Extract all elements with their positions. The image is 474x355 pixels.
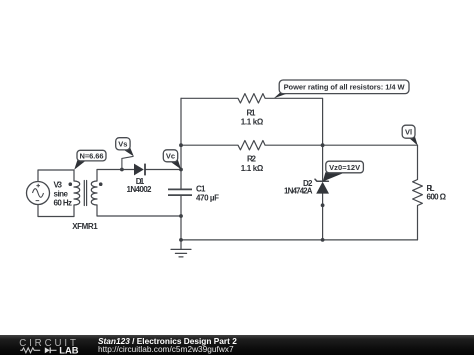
svg-text:R1: R1 [247, 109, 257, 118]
svg-text:1N4742A: 1N4742A [284, 187, 313, 196]
svg-text:Vz0=12V: Vz0=12V [329, 163, 360, 172]
svg-text:sine: sine [54, 190, 69, 199]
svg-text:Vc: Vc [166, 152, 175, 161]
svg-text:470 µF: 470 µF [196, 194, 219, 203]
svg-text:Power rating of all resistors:: Power rating of all resistors: 1/4 W [284, 83, 406, 92]
svg-text:60 Hz: 60 Hz [54, 199, 73, 208]
svg-text:C1: C1 [196, 184, 206, 193]
svg-text:R2: R2 [247, 154, 257, 163]
svg-text:LAB: LAB [59, 344, 78, 355]
svg-text:Vs: Vs [118, 140, 127, 149]
svg-text:V3: V3 [54, 181, 63, 190]
svg-text:XFMR1: XFMR1 [72, 222, 98, 231]
svg-text:600 Ω: 600 Ω [427, 193, 447, 202]
svg-text:1N4002: 1N4002 [127, 185, 153, 194]
svg-text:1.1 kΩ: 1.1 kΩ [241, 164, 264, 173]
svg-text:1.1 kΩ: 1.1 kΩ [241, 118, 264, 127]
svg-text:Vl: Vl [405, 128, 412, 137]
svg-text:N=6.66: N=6.66 [80, 151, 104, 160]
